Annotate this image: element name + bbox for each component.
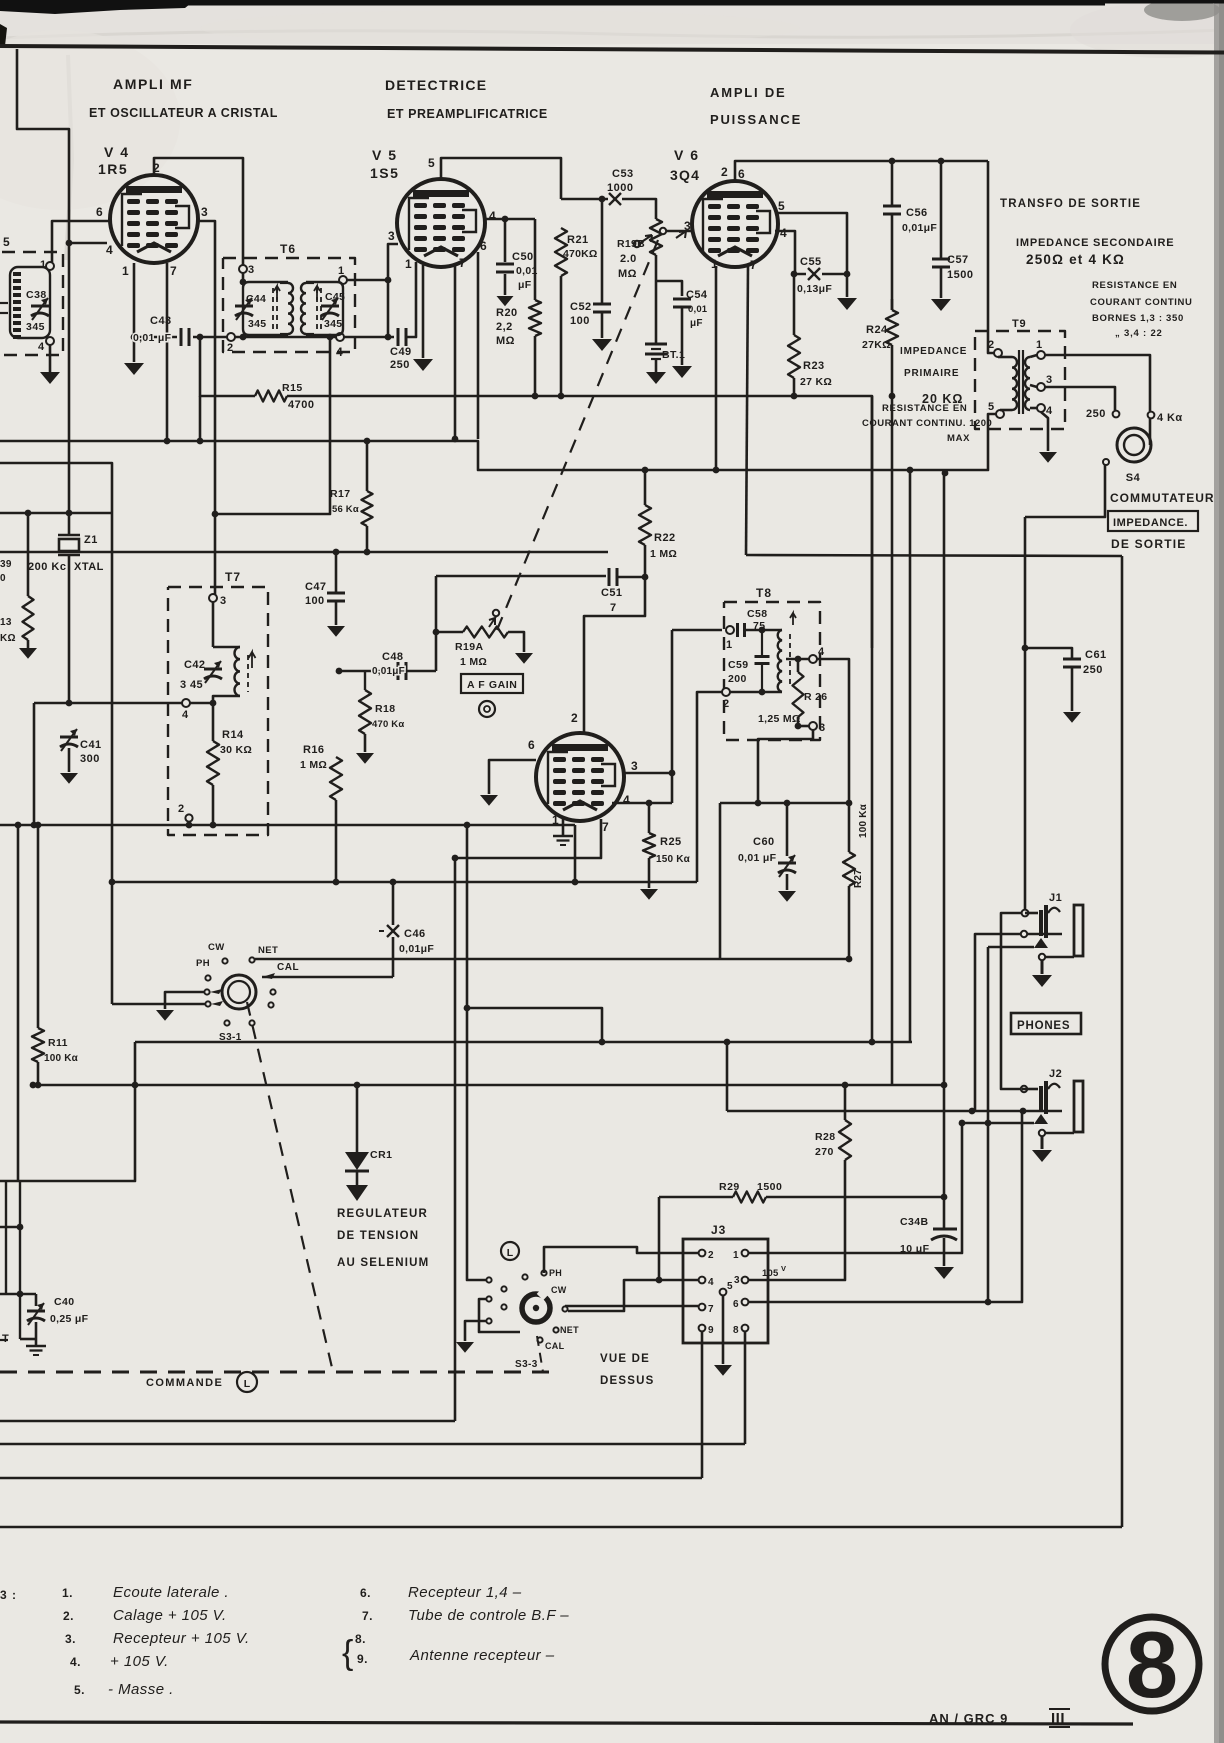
wire T5 terminal4 to ground — [49, 345, 52, 372]
svg-text:C59: C59 — [728, 659, 748, 671]
wire V5 pin4 screen to C50/R20 — [484, 218, 535, 221]
wire V7 pin6 to ground — [489, 760, 536, 794]
svg-text:T7: T7 — [225, 570, 241, 584]
wire V4 pin3 down to T7 terminal3 (long vertical) — [197, 221, 215, 598]
svg-text:1 MΩ: 1 MΩ — [460, 656, 487, 668]
svg-text:C42: C42 — [184, 659, 205, 671]
svg-text:1: 1 — [726, 639, 733, 651]
ground under C50 — [497, 296, 514, 306]
svg-text:C55: C55 — [800, 256, 822, 268]
wire J2 ring left to x727 — [727, 1110, 962, 1113]
wire R29 row y1197 — [659, 1196, 733, 1199]
wire T6 term4 to C49 to V5 pin1 riser — [344, 336, 394, 339]
A F GAIN boxed label — [461, 674, 523, 693]
svg-text:470 Kα: 470 Kα — [372, 719, 404, 730]
wire V4 pin6 to T5 terminal1 — [52, 221, 110, 262]
svg-text:Antenne recepteur –: Antenne recepteur – — [409, 1647, 555, 1664]
svg-text:C50: C50 — [512, 251, 534, 263]
svg-text:C61: C61 — [1085, 649, 1107, 661]
svg-text:8.: 8. — [355, 1632, 366, 1646]
svg-text:56 Kα: 56 Kα — [332, 504, 359, 515]
capacitor C57 1500 branch — [940, 161, 943, 258]
wire V6 pin4 to C55 — [775, 231, 806, 274]
svg-text:7: 7 — [750, 258, 758, 272]
svg-text:C58: C58 — [747, 608, 767, 620]
switch S4 — [1117, 428, 1151, 462]
T6 terminal 4 — [336, 333, 344, 341]
svg-text:CAL: CAL — [277, 962, 299, 973]
svg-text:μF: μF — [518, 279, 532, 291]
wire C43 to T6 terminal2 and on to C49 — [193, 336, 227, 339]
ground under C60 — [778, 891, 796, 902]
wire V6 pin1 down — [715, 266, 718, 470]
svg-text:C48: C48 — [382, 651, 403, 663]
capacitor C44 345 tuning — [243, 282, 288, 335]
wire C49 to V5 pin3 vertical — [406, 262, 416, 337]
svg-text:AU SELENIUM: AU SELENIUM — [337, 1257, 429, 1269]
svg-text:3Q4: 3Q4 — [670, 167, 700, 183]
wire S3-3 pin to J3 pin2 path — [544, 1247, 698, 1273]
T8 terminal 2 — [722, 688, 730, 696]
svg-text:3: 3 — [248, 264, 255, 276]
T6 terminal 2 — [227, 333, 235, 341]
svg-text:1S5: 1S5 — [370, 165, 399, 181]
svg-text:C49: C49 — [390, 346, 412, 358]
svg-text:6: 6 — [738, 167, 746, 181]
capacitor C52 100 branch — [601, 199, 604, 303]
wire J1 arrow riser x988 — [987, 947, 990, 1302]
wire J1 ring to left riser — [975, 934, 1021, 1111]
svg-text:S4: S4 — [1126, 472, 1141, 484]
wire rail down to T9 terminal2 — [988, 161, 994, 353]
wire y552 to C51 — [367, 551, 608, 554]
svg-text:IMPEDANCE: IMPEDANCE — [900, 346, 967, 357]
capacitor C50 0.01uF — [496, 263, 514, 266]
svg-text:2: 2 — [178, 803, 185, 815]
capacitor C49 250 — [397, 328, 400, 346]
svg-text:RESISTANCE EN: RESISTANCE EN — [1092, 280, 1177, 291]
ground under R13 — [19, 648, 37, 659]
ground under C47 — [327, 626, 345, 637]
svg-text:300: 300 — [80, 753, 100, 765]
bus y513 crystal feed — [0, 512, 112, 515]
wire pin3V4 junction y514 — [215, 337, 330, 514]
wire J3 pin3 to R28 riser — [749, 1160, 845, 1280]
svg-text:27KΩ: 27KΩ — [862, 339, 891, 351]
wire S3-3 right contact to J3 pin4 — [568, 1280, 698, 1311]
ground under C40 — [26, 1345, 46, 1348]
svg-text:30 KΩ: 30 KΩ — [220, 744, 252, 756]
T8 terminal 1 — [726, 626, 734, 634]
svg-text:IMPEDANCE.: IMPEDANCE. — [1113, 517, 1188, 529]
svg-text:8: 8 — [1126, 1612, 1178, 1717]
svg-text:0: 0 — [0, 573, 6, 584]
svg-text:100 Kα: 100 Kα — [858, 803, 869, 838]
bus y1042 — [135, 1041, 912, 1044]
wire S3-1 upper left contact to ground — [165, 992, 204, 1009]
svg-text:C52: C52 — [570, 301, 592, 313]
wire V5 pin3 grid riser — [388, 244, 398, 280]
svg-text:T: T — [2, 1333, 10, 1345]
wire x720 drop from pin4 row — [719, 803, 722, 959]
capacitor C61 250 branch — [1025, 648, 1072, 658]
svg-text:4: 4 — [336, 345, 344, 359]
ground under C57 — [931, 299, 951, 311]
svg-text:1: 1 — [405, 257, 413, 271]
svg-text:Tube de controle B.F –: Tube de controle B.F – — [408, 1607, 569, 1624]
diode CR1 selenium — [356, 1085, 359, 1152]
wire V5 pin6 down — [477, 252, 480, 439]
ganging dashed line R19B to R19A — [497, 240, 658, 630]
transformer T5 (partial, dashed box) — [2, 252, 63, 355]
ground at S3-3 — [456, 1342, 474, 1353]
svg-text:C34B: C34B — [900, 1216, 928, 1228]
top edge black bar — [0, 0, 1105, 6]
wire y671 C48 row — [339, 670, 394, 673]
T9 secondary coil — [1025, 357, 1030, 410]
svg-text:0,01 μF: 0,01 μF — [738, 852, 777, 864]
svg-text:345: 345 — [248, 318, 266, 330]
wire T8 term2 left down — [697, 692, 722, 882]
wire y703 row — [34, 702, 182, 705]
terminal 4 of T5 — [46, 337, 54, 345]
svg-text:0,01 μF: 0,01 μF — [133, 332, 172, 344]
bus y552 left — [0, 551, 367, 554]
capacitor C43 0.01uF — [180, 328, 183, 346]
wire V5 pin7 down to bus439 — [454, 265, 457, 439]
circle L near S3-3 — [501, 1242, 519, 1260]
svg-text:6: 6 — [733, 1299, 740, 1310]
svg-text:V 4: V 4 — [104, 144, 130, 160]
svg-text:100 Kα: 100 Kα — [44, 1053, 79, 1064]
wire S3-1 lower left contact to x112 — [112, 1003, 205, 1006]
svg-text:L: L — [244, 1378, 251, 1390]
svg-text:ET OSCILLATEUR A CRISTAL: ET OSCILLATEUR A CRISTAL — [89, 106, 278, 120]
svg-text:1: 1 — [733, 1250, 740, 1261]
mechanical dashed S3-1 to commande — [247, 1002, 333, 1372]
svg-text:T9: T9 — [1012, 318, 1026, 330]
svg-text:III: III — [1051, 1710, 1065, 1727]
svg-text:CW: CW — [551, 1285, 567, 1295]
svg-text:100: 100 — [570, 315, 590, 327]
svg-text:REGULATEUR: REGULATEUR — [337, 1208, 428, 1220]
svg-text:2: 2 — [721, 165, 729, 179]
transformer T7 dashed box — [168, 587, 268, 835]
dashed S3-3 to commande — [537, 1336, 543, 1372]
wire V4 pin1 cathode down with ground — [133, 263, 136, 362]
svg-text:COURANT CONTINU. 1200: COURANT CONTINU. 1200 — [862, 418, 992, 429]
ground at V7 pin6 — [480, 795, 498, 806]
T8 terminal 3 — [809, 722, 817, 730]
svg-text:2.: 2. — [63, 1609, 74, 1623]
wire V6 plate pins2/6 to output rail y161 — [735, 161, 988, 181]
svg-text:R19A: R19A — [455, 641, 483, 653]
svg-text:8: 8 — [733, 1325, 740, 1336]
wire CAL contact row — [262, 976, 393, 979]
svg-text:3.: 3. — [65, 1632, 76, 1646]
wire J3 pin6 right — [749, 1111, 1022, 1302]
wire left edge stubs — [0, 302, 8, 304]
svg-text:DE SORTIE: DE SORTIE — [1111, 537, 1186, 551]
svg-text:1: 1 — [122, 264, 130, 278]
ground at S3-1 — [156, 1010, 174, 1021]
capacitor C55 0.13uF (series X) — [808, 268, 820, 280]
svg-text:C43: C43 — [150, 315, 172, 327]
wire y1008 branch — [467, 1008, 602, 1042]
capacitor C48 0.01uF — [397, 662, 400, 680]
wire V6 pin7 down to impedance line — [746, 266, 748, 555]
wire V7 pin4 row — [612, 802, 672, 805]
svg-text:C41: C41 — [80, 739, 102, 751]
svg-text:S3-3: S3-3 — [515, 1359, 538, 1370]
capacitor C42 345 — [204, 668, 222, 671]
svg-text:5.: 5. — [74, 1683, 85, 1697]
tube V5 1S5 — [397, 179, 485, 267]
resistor R22 1M — [644, 470, 647, 505]
S3-1 left contacts with arrows — [204, 989, 209, 994]
tube V6 3Q4 — [692, 181, 778, 267]
wire NET line y959 — [255, 958, 849, 961]
ground under C61 — [1063, 712, 1081, 723]
wire V5 pin1 down to ground arrow — [422, 265, 425, 358]
svg-text:1 MΩ: 1 MΩ — [300, 759, 327, 771]
svg-text:9: 9 — [708, 1325, 715, 1336]
svg-text:1: 1 — [40, 259, 47, 271]
svg-text:470KΩ: 470KΩ — [563, 248, 598, 260]
rotary switch S3-1 — [222, 975, 256, 1009]
wire T9 term4 to ground — [1041, 412, 1048, 451]
left edge fold mark — [0, 24, 7, 46]
svg-text:2.0: 2.0 — [620, 253, 637, 265]
svg-text:200 Kc: 200 Kc — [28, 561, 66, 573]
wire y576 row with C51 — [436, 575, 606, 578]
svg-text:5: 5 — [3, 235, 11, 249]
svg-text:IMPEDANCE SECONDAIRE: IMPEDANCE SECONDAIRE — [1016, 237, 1174, 249]
J3 pins — [699, 1250, 706, 1257]
ground under R25 — [640, 889, 658, 900]
svg-text:R28: R28 — [815, 1131, 835, 1143]
capacitor C41 300 variable — [66, 700, 73, 707]
wire T9 term3 to 250 terminal — [1045, 387, 1115, 410]
svg-text:VUE DE: VUE DE — [600, 1353, 650, 1365]
ground under C41 — [60, 773, 78, 784]
svg-text:4: 4 — [182, 709, 189, 721]
svg-text:3 :: 3 : — [0, 1588, 17, 1602]
svg-text:A F GAIN: A F GAIN — [467, 679, 518, 691]
top border line — [0, 46, 1224, 53]
svg-text:1,25 MΩ: 1,25 MΩ — [758, 713, 801, 725]
capacitor C38 345 tuning unit — [10, 267, 50, 338]
T7 terminal 2 bottom — [186, 822, 193, 829]
shaft indicator circle O — [479, 701, 495, 717]
wire J3 pin8 down to bus1444 — [744, 1332, 747, 1444]
svg-text:KΩ: KΩ — [0, 633, 16, 644]
wire x891 drop — [891, 395, 894, 1085]
svg-text:4: 4 — [818, 646, 825, 658]
svg-text:5: 5 — [428, 156, 436, 170]
svg-text:R16: R16 — [303, 744, 324, 756]
resistor R20 2.2M vertical — [534, 219, 537, 300]
svg-text:XTAL: XTAL — [74, 561, 104, 573]
svg-text:R17: R17 — [330, 488, 350, 500]
wire V4 pin4 from x69 riser — [69, 242, 107, 245]
svg-text:200: 200 — [728, 673, 747, 685]
svg-text:2: 2 — [571, 711, 579, 725]
resistor R27 100K vertical label — [848, 803, 851, 852]
resistor R29 1500 — [733, 1192, 766, 1203]
svg-text:2,2: 2,2 — [496, 321, 513, 333]
wire x69 down to crystal line — [68, 243, 71, 513]
svg-text:C54: C54 — [686, 289, 708, 301]
resistor R13 (cut at edge) — [27, 513, 30, 596]
svg-text:7: 7 — [708, 1304, 715, 1315]
svg-text:3: 3 — [388, 229, 396, 243]
svg-text:39: 39 — [0, 559, 12, 570]
battery BT-1 — [645, 343, 667, 346]
svg-text:C40: C40 — [54, 1296, 74, 1308]
T9 terminal 4 — [1037, 404, 1045, 412]
resistor R25 150K — [646, 800, 653, 807]
svg-text:7: 7 — [170, 264, 178, 278]
ground under R18 — [356, 753, 374, 764]
capacitor C45 345 tuning — [306, 282, 343, 335]
T9 terminal 5 — [996, 410, 1004, 418]
wire right border x1122 down — [1121, 556, 1124, 1527]
svg-text:MΩ: MΩ — [496, 335, 515, 347]
svg-text:J1: J1 — [1049, 892, 1062, 904]
wire x910 drop — [909, 470, 912, 1042]
svg-text:Z1: Z1 — [84, 534, 98, 546]
svg-text:3: 3 — [220, 595, 227, 607]
ground V5 pin1 — [413, 359, 433, 371]
bus y1478 — [0, 1477, 702, 1480]
svg-text:- Masse .: - Masse . — [108, 1681, 174, 1698]
wire R15 riser x201 — [200, 337, 255, 396]
transformer T8 dashed box — [724, 602, 820, 740]
wire V7 pin7 to y858 stub — [455, 819, 601, 858]
wire J3 pin1 right — [749, 1123, 962, 1253]
svg-text:0,01μF: 0,01μF — [902, 222, 937, 234]
wire x467 riser to S3-3 — [467, 825, 486, 1280]
svg-text:C53: C53 — [612, 168, 634, 180]
svg-text:R21: R21 — [567, 234, 589, 246]
svg-text:TRANSFO DE SORTIE: TRANSFO DE SORTIE — [1000, 198, 1141, 210]
wire C51 node down to V7 pin2 — [584, 577, 645, 733]
svg-text:PH: PH — [549, 1268, 562, 1278]
wire left column x20 extension — [19, 1181, 21, 1227]
svg-text:6: 6 — [528, 738, 536, 752]
bus y463 left stub — [0, 463, 112, 513]
svg-text:J3: J3 — [711, 1223, 726, 1237]
crystal Z1 200Kc XTAL — [68, 513, 71, 535]
bus y1085 — [33, 1084, 944, 1087]
svg-text:9.: 9. — [357, 1652, 368, 1666]
wire S3-3 third contact to ground — [465, 1321, 486, 1341]
svg-text:T6: T6 — [280, 242, 296, 256]
svg-text:COMMANDE: COMMANDE — [146, 1377, 223, 1389]
bus y470 continuation to T9 return — [716, 414, 996, 470]
svg-text:4: 4 — [623, 793, 631, 807]
T9 terminal 1 — [1037, 351, 1045, 359]
wire V6 pin5 to C55 junction — [778, 213, 847, 274]
potentiometer R19B 2.0M — [650, 219, 662, 255]
resistor R11 100K — [37, 825, 40, 1028]
wire T8 secondary row y803 — [720, 802, 849, 805]
tube V7 (BF) — [536, 733, 624, 821]
svg-text:6: 6 — [480, 239, 488, 253]
resistor R17 56K — [366, 441, 369, 491]
svg-text:R23: R23 — [803, 360, 825, 372]
svg-text:6: 6 — [96, 205, 104, 219]
rotary switch S3-3 — [522, 1294, 550, 1322]
svg-text:4: 4 — [38, 341, 45, 353]
svg-text:+ 105 V.: + 105 V. — [110, 1653, 169, 1670]
svg-text:Recepteur + 105 V.: Recepteur + 105 V. — [113, 1630, 250, 1647]
ground under R19A — [515, 653, 533, 664]
svg-text:3: 3 — [631, 759, 639, 773]
svg-text:R24: R24 — [866, 324, 888, 336]
wire 4K down to y556 row — [1149, 419, 1152, 445]
svg-text:3: 3 — [201, 205, 209, 219]
svg-text:250: 250 — [1083, 664, 1103, 676]
wire V5 plate pin5 to B+ rail and R21 — [441, 158, 561, 199]
svg-text:5: 5 — [988, 401, 995, 413]
svg-text:13: 13 — [0, 617, 12, 628]
svg-text:4: 4 — [780, 226, 788, 240]
svg-text:MAX: MAX — [947, 433, 970, 444]
wire x112 long vertical — [111, 513, 114, 882]
svg-text:DE TENSION: DE TENSION — [337, 1230, 419, 1242]
svg-text:7: 7 — [602, 820, 610, 834]
svg-text:4.: 4. — [70, 1655, 81, 1669]
wire T8 term4 right to R27 riser — [817, 659, 849, 803]
svg-text:1: 1 — [1036, 339, 1043, 351]
svg-text:ET PREAMPLIFICATRICE: ET PREAMPLIFICATRICE — [387, 107, 548, 121]
svg-text:J2: J2 — [1049, 1068, 1062, 1080]
wire S3-3 second left contact — [479, 1299, 520, 1332]
capacitor C58 75 — [736, 623, 739, 637]
svg-text:PH: PH — [196, 958, 210, 969]
svg-text:105: 105 — [762, 1268, 779, 1279]
svg-text:PRIMAIRE: PRIMAIRE — [904, 368, 959, 379]
wire J1 tip parallel to J2 tip — [1001, 913, 1022, 1089]
svg-text:CW: CW — [208, 942, 225, 953]
T8 coil — [778, 630, 782, 692]
svg-text:4: 4 — [1046, 405, 1053, 417]
capacitor C60 0.01uF variable — [784, 800, 791, 807]
T6 terminal 3 — [239, 265, 247, 273]
transformer T9 dashed box — [975, 331, 1065, 429]
svg-text:R20: R20 — [496, 307, 518, 319]
resistor R15 4700 — [255, 391, 287, 402]
svg-text:7.: 7. — [362, 1609, 373, 1623]
bottom border line — [0, 1722, 1133, 1724]
resistor R21 470K vertical — [555, 228, 567, 276]
bus y1421 — [0, 1420, 455, 1423]
svg-text:RESISTANCE EN: RESISTANCE EN — [882, 403, 967, 414]
wire x1025 down from S4 — [1024, 517, 1027, 913]
wire V7 pin3 to T8 terminal1 riser — [623, 772, 672, 775]
svg-text:CR1: CR1 — [370, 1149, 393, 1161]
capacitor C59 200 — [761, 630, 763, 655]
svg-text:1000: 1000 — [607, 182, 633, 194]
T9 primary coil — [998, 356, 1012, 359]
wire V4 pin7 down to bus441 — [166, 263, 169, 441]
svg-text:2: 2 — [708, 1250, 715, 1261]
bus y882 long row — [112, 881, 697, 884]
svg-text:V: V — [781, 1264, 786, 1273]
svg-text:C38: C38 — [26, 289, 47, 301]
